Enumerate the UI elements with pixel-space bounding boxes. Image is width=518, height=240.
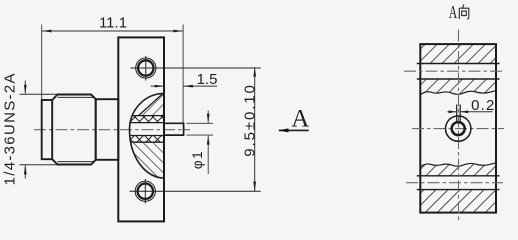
boss (sectioned body, D-shape) internals [126, 93, 166, 181]
band boundary lines [417, 64, 500, 190]
coupling front band [42, 100, 53, 159]
view arrow A [279, 129, 309, 131]
svg-text:11.1: 11.1 [99, 15, 127, 32]
svg-text:1/4-36UNS-2A: 1/4-36UNS-2A [2, 72, 19, 185]
threaded barrel (crest outline with chamfers) [52, 95, 95, 165]
slot feature (0.2) [456, 105, 458, 123]
dimension thread OD: dim line and arrows [20, 81, 58, 179]
chamfer chord (top) [139, 93, 164, 116]
insulator crosshatch bands [128, 116, 166, 123]
center pin protruding [164, 123, 184, 136]
centerline (horizontal axis) [34, 129, 190, 131]
insulator band boundary lines [130, 116, 164, 143]
dimension 0.2 [461, 111, 493, 113]
right view rectangle [420, 44, 496, 213]
dimension phi-1 [187, 111, 214, 175]
centerlines [404, 30, 504, 221]
hole centerlines extending to 9.5 dimension [131, 67, 261, 69]
dimension 9.5 +/- 0.10 [254, 67, 256, 191]
flange plate [118, 37, 164, 221]
svg-text:A: A [449, 2, 458, 22]
neck between barrel and flange [96, 99, 119, 160]
mounting hole top [136, 58, 156, 78]
mounting hole bottom [135, 181, 155, 201]
svg-text:9.5±0.10: 9.5±0.10 [242, 83, 259, 156]
dimension 11.1 [41, 25, 43, 101]
svg-text:φ1: φ1 [190, 150, 205, 169]
metal hatch top [139, 93, 167, 116]
freehand break lines [420, 91, 496, 95]
CJK glyph for 'xiang' drawn as SVG [459, 5, 469, 20]
hatched bands [420, 44, 496, 63]
svg-text:0.2: 0.2 [471, 97, 495, 114]
thread root lines [58, 96, 94, 98]
metal hatch bottom [126, 142, 166, 180]
dimension 1.5 [151, 85, 165, 87]
center contact hole [446, 116, 471, 141]
svg-text:A: A [291, 106, 309, 133]
svg-text:1.5: 1.5 [197, 71, 218, 88]
boss outline arc [130, 94, 165, 179]
